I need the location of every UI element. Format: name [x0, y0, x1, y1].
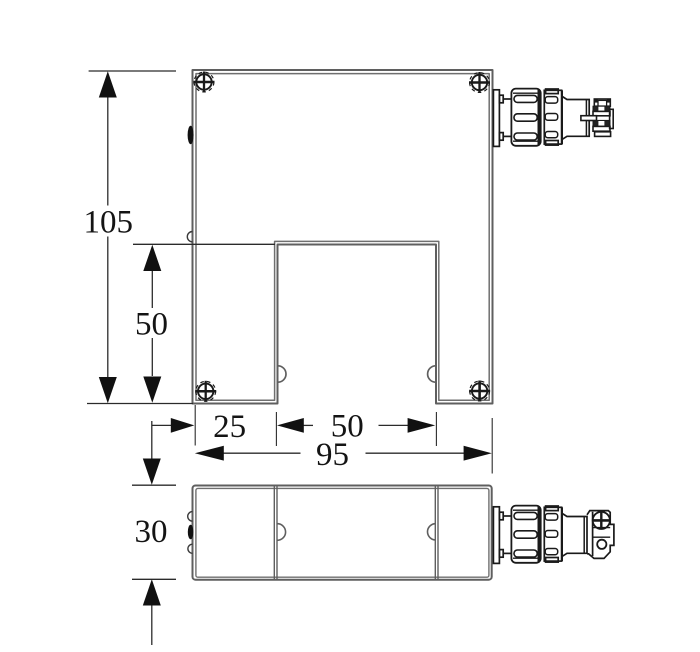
dimension 25 — [152, 405, 195, 446]
connector assembly bottom (common barrel) — [493, 506, 614, 564]
bottom edge extension line — [87, 403, 193, 405]
screw TR — [469, 72, 490, 93]
top view body inner seam line — [196, 74, 489, 401]
slot notch left — [278, 366, 286, 382]
gland barrel — [511, 89, 540, 146]
side view left edge bump lower — [188, 544, 193, 553]
connector assembly top (common barrel) — [493, 89, 613, 147]
terminal end piece (bottom connector, angled view) — [587, 511, 614, 559]
screw TL — [194, 72, 215, 93]
svg-text:95: 95 — [316, 437, 349, 473]
dimension 30 — [132, 421, 176, 645]
top view left edge black blob — [188, 126, 194, 144]
coupling ring — [544, 506, 562, 562]
coupling ring — [544, 89, 562, 145]
side view inner seam — [196, 488, 489, 577]
gland barrel — [511, 506, 540, 563]
side view left edge black blob — [188, 525, 194, 539]
svg-text:25: 25 — [213, 409, 246, 445]
svg-text:50: 50 — [135, 307, 168, 343]
screw BR — [469, 381, 490, 402]
dimension 105 — [89, 71, 176, 377]
plug body — [562, 514, 587, 557]
side view notch on right slot line — [428, 524, 436, 540]
terminal end piece (top connector) — [581, 99, 613, 136]
slot notch right — [428, 366, 436, 382]
svg-text:30: 30 — [135, 514, 168, 550]
side view body outline — [193, 486, 492, 580]
flange — [493, 90, 511, 147]
top view left edge small bump — [187, 232, 192, 242]
top view body outline (U-shaped fork body, outer edge) — [193, 70, 493, 404]
dimension 95 — [224, 418, 493, 474]
side view left edge bump upper — [188, 512, 193, 522]
dimension 50 horizontal — [276, 412, 436, 446]
screw BL — [195, 381, 216, 402]
plug body — [562, 97, 589, 140]
side view notch on left slot line — [277, 524, 285, 541]
svg-text:105: 105 — [83, 205, 133, 241]
side view slot edge line left — [274, 486, 277, 580]
dimension 50 vertical — [133, 244, 275, 376]
side view slot edge line right — [435, 486, 438, 580]
flange — [493, 507, 511, 564]
